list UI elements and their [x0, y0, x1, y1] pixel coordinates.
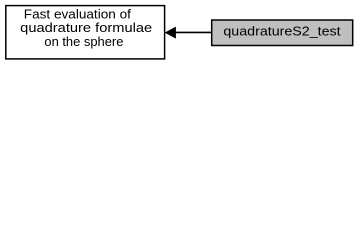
edge arrowhead — [166, 27, 176, 38]
svg-text:quadrature formulae: quadrature formulae — [20, 21, 152, 35]
svg-text:quadratureS2_test: quadratureS2_test — [223, 24, 341, 38]
node: group "Fast evaluation of quadrature formulae on the sphere" — [6, 6, 165, 59]
svg-text:on the sphere: on the sphere — [44, 35, 123, 49]
edge wire — [174, 31, 212, 33]
svg-text:Fast evaluation of: Fast evaluation of — [24, 8, 132, 22]
node: current "quadratureS2_test" — [212, 20, 353, 46]
